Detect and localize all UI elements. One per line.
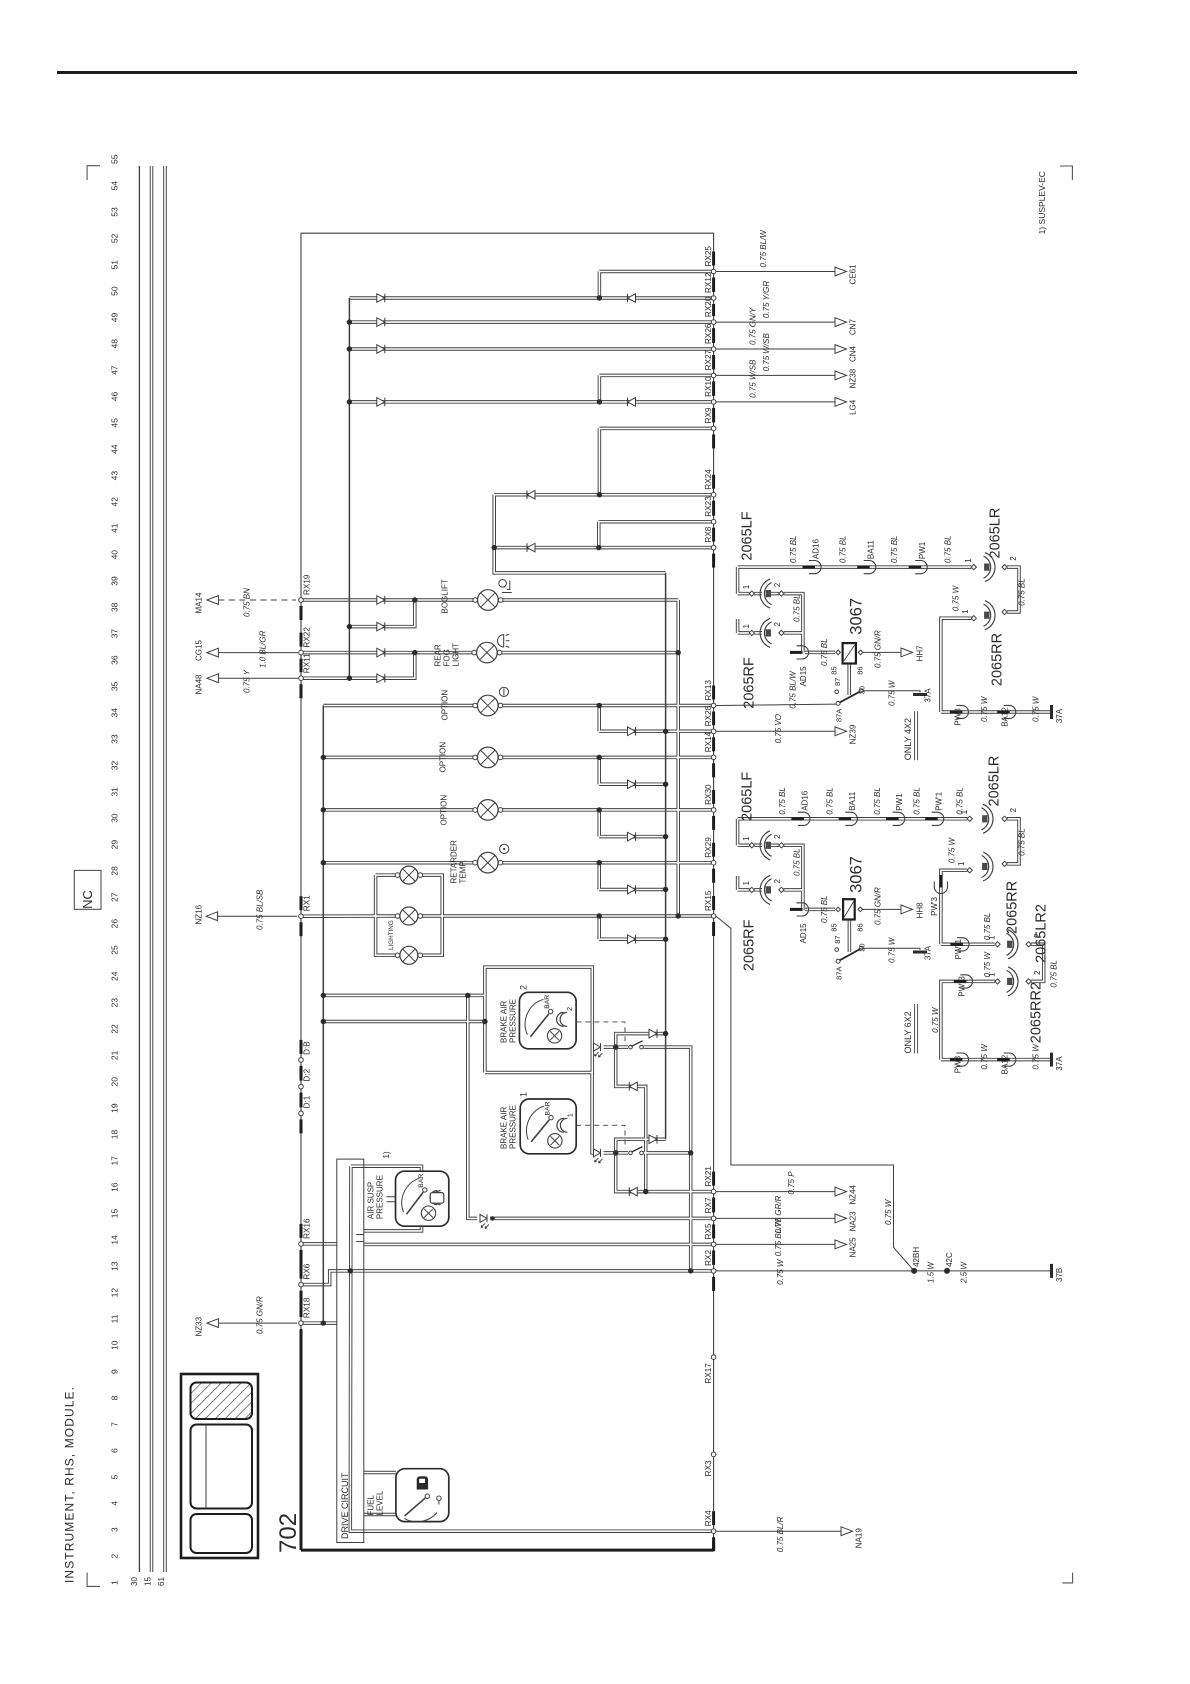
ground 37B [1050, 1264, 1053, 1278]
junction [597, 755, 602, 760]
svg-text:1: 1 [742, 584, 751, 589]
junction [347, 624, 352, 629]
svg-text:FUEL: FUEL [367, 1495, 376, 1516]
svg-text:85: 85 [830, 666, 839, 674]
diode feed row 1 [628, 727, 636, 736]
svg-text:AIR SUSP: AIR SUSP [367, 1182, 376, 1219]
svg-text:10: 10 [110, 1340, 120, 1350]
svg-text:0.75 BL: 0.75 BL [820, 638, 829, 666]
gauge AIR SUSP PRESSURE [396, 1171, 449, 1226]
svg-text:CN4: CN4 [849, 345, 858, 362]
module 702 boundary box [301, 233, 714, 1550]
wire to PW''1 row [941, 943, 995, 945]
svg-text:RX26: RX26 [704, 323, 713, 344]
svg-text:0.75 BL/R: 0.75 BL/R [776, 1516, 785, 1552]
svg-text:RX25: RX25 [704, 246, 713, 267]
relay pin 86 6x2 [858, 907, 863, 912]
wire NA48 [218, 677, 298, 679]
svg-text:LEVEL: LEVEL [376, 1490, 385, 1515]
diode RX10 right [628, 398, 636, 407]
svg-text:6: 6 [110, 1448, 120, 1453]
air gauge bottom wire [364, 1226, 422, 1231]
node RX14 [711, 755, 716, 760]
svg-text:2: 2 [773, 582, 782, 587]
svg-text:NZ39: NZ39 [849, 724, 858, 744]
splice AD16 [809, 561, 821, 574]
svg-text:0.75 GN/R: 0.75 GN/R [874, 630, 883, 668]
junction [663, 937, 668, 942]
wire RR2 pin1 down [941, 870, 968, 944]
bus line 30 [138, 166, 140, 1572]
sensor 2065RF 6x2 [760, 875, 770, 904]
wire blade to V691 gauge1 [644, 1152, 691, 1154]
svg-text:RX1: RX1 [303, 895, 312, 911]
node RX10 [711, 400, 716, 405]
wire to CN7 [716, 321, 835, 323]
node RX9 [711, 426, 716, 431]
diode feed row 3 [628, 832, 636, 841]
node D:1 [299, 1111, 304, 1116]
wire 2065LF2 pin2 chain [771, 845, 803, 910]
svg-text:0.75 BL/W: 0.75 BL/W [759, 229, 768, 268]
svg-text:87: 87 [833, 935, 842, 943]
diode row 5 wire [599, 938, 665, 940]
svg-text:2: 2 [773, 622, 782, 627]
svg-text:RX11: RX11 [303, 653, 312, 673]
svg-text:PW3: PW3 [953, 1055, 962, 1073]
wire RX15 external run to 42BH [716, 916, 914, 1271]
wire AD15 to relay 85 6x2 [805, 908, 835, 910]
off-page HH7 [901, 648, 913, 657]
svg-text:34: 34 [110, 708, 120, 718]
svg-text:TEMP.: TEMP. [459, 860, 468, 883]
wire to CE61 [716, 271, 835, 273]
lamp OPTION3 [473, 808, 478, 813]
svg-text:0.75 BL: 0.75 BL [944, 536, 953, 564]
junction [347, 676, 352, 681]
svg-text:42: 42 [110, 497, 120, 507]
svg-text:28: 28 [110, 866, 120, 876]
node RX17 [711, 1355, 716, 1360]
node RX27 [711, 373, 716, 378]
diode RX19 [377, 596, 385, 605]
svg-text:0.75 BL/W: 0.75 BL/W [789, 670, 798, 709]
wire RR pin1 to PW3 row [941, 618, 972, 712]
svg-text:0.75 BL: 0.75 BL [793, 848, 802, 876]
svg-text:0.75 BL: 0.75 BL [873, 787, 882, 815]
junction [663, 834, 668, 839]
junction [597, 913, 602, 918]
svg-text:87A: 87A [835, 967, 844, 980]
svg-text:2: 2 [1033, 970, 1042, 975]
relay 3067 coil box 6x2 [843, 899, 855, 919]
relay 3067 coil box [843, 643, 856, 663]
off-page NZ33 [207, 1319, 219, 1328]
diode row 2 wire [599, 783, 665, 785]
node RX22 [299, 650, 304, 655]
svg-text:BA12: BA12 [1001, 1054, 1010, 1074]
ground 37A 6x2 [1050, 1053, 1053, 1067]
top bus 6X2 [738, 818, 968, 820]
bus V323 [322, 706, 324, 1324]
wire RX6 jog to RX2 row [301, 1271, 350, 1285]
splice AD16 6x2 [798, 812, 810, 825]
sensor 2065RR [985, 601, 995, 630]
svg-text:31: 31 [110, 787, 120, 797]
svg-text:4: 4 [110, 1501, 120, 1506]
svg-text:RX19: RX19 [303, 574, 312, 595]
svg-text:NA23: NA23 [849, 1211, 858, 1232]
wire 30 to ground [863, 691, 920, 693]
svg-text:BRAKE AIR: BRAKE AIR [500, 1001, 509, 1043]
feed row to RX7 LED [323, 994, 485, 996]
node RX7 [711, 1216, 716, 1221]
svg-text:2: 2 [773, 879, 782, 884]
dashed link gauge2 [576, 1022, 625, 1043]
svg-text:AD15: AD15 [799, 923, 808, 944]
svg-text:RX8: RX8 [704, 526, 713, 542]
svg-text:49: 49 [110, 313, 120, 323]
wire LED to RX7 [490, 1217, 714, 1219]
relay pin 30 6x2 [859, 946, 863, 950]
svg-text:1: 1 [742, 624, 751, 629]
svg-text:40: 40 [110, 550, 120, 560]
svg-text:30: 30 [130, 1577, 139, 1586]
svg-text:1) SUSPLEV-EC: 1) SUSPLEV-EC [1037, 171, 1047, 234]
svg-text:0.75 W: 0.75 W [1032, 695, 1041, 722]
relay blade [840, 692, 861, 703]
svg-text:0.75 GN/Y: 0.75 GN/Y [749, 307, 758, 345]
svg-text:BAR: BAR [418, 1174, 425, 1188]
svg-text:2065RR2: 2065RR2 [1029, 982, 1045, 1043]
svg-text:0.75 W: 0.75 W [931, 1006, 940, 1033]
wire to LG4 [716, 401, 835, 403]
svg-text:21: 21 [110, 1050, 120, 1060]
gauge2 comparator wire [592, 1046, 594, 1048]
diode row 4 wire [599, 889, 665, 891]
fuel terminal circle [437, 1496, 441, 1500]
svg-text:PW3: PW3 [953, 708, 962, 726]
svg-text:1: 1 [964, 558, 973, 563]
node RX6 [299, 1282, 304, 1287]
svg-text:PW''1: PW''1 [954, 939, 963, 960]
svg-text:0.75 W: 0.75 W [884, 1198, 893, 1225]
svg-text:1: 1 [957, 861, 966, 866]
svg-text:36: 36 [110, 655, 120, 665]
svg-text:0.75 BL: 0.75 BL [839, 536, 848, 564]
icon boglift [499, 580, 507, 588]
svg-text:1: 1 [110, 1580, 120, 1585]
svg-text:2065RR: 2065RR [990, 633, 1006, 686]
node RX4 [711, 1529, 716, 1534]
svg-text:HH8: HH8 [916, 902, 925, 919]
svg-text:1: 1 [519, 1092, 529, 1097]
diode boglift feed [377, 622, 385, 631]
diode row 3 drop wire [598, 810, 600, 837]
svg-text:BAR: BAR [544, 1101, 551, 1115]
svg-text:47: 47 [110, 365, 120, 375]
icon option1 [499, 687, 508, 696]
svg-text:1: 1 [988, 935, 997, 940]
svg-text:2: 2 [1009, 807, 1018, 812]
diode feed row from V349 to BOGLIFT [349, 600, 414, 627]
svg-text:13: 13 [110, 1261, 120, 1271]
svg-text:3067: 3067 [848, 598, 866, 635]
sensor 2065LR [985, 553, 995, 582]
icon air susp square [430, 1193, 444, 1204]
svg-text:0.75 BL: 0.75 BL [1018, 578, 1027, 606]
splice PW'3 [934, 882, 947, 894]
svg-text:ONLY 6X2: ONLY 6X2 [903, 1011, 913, 1053]
svg-text:39: 39 [110, 576, 120, 586]
svg-text:29: 29 [110, 840, 120, 850]
LED RX7 [480, 1214, 487, 1222]
cluster window bottom [191, 1514, 253, 1553]
left border bold lower run [301, 1343, 714, 1550]
LED gauge1 [594, 1149, 601, 1157]
wire RX13 to 87A [716, 704, 836, 705]
svg-text:AD15: AD15 [799, 666, 808, 687]
svg-text:LIGHT: LIGHT [452, 643, 461, 667]
svg-text:2065LR: 2065LR [988, 508, 1004, 559]
svg-text:DRIVE CIRCUIT: DRIVE CIRCUIT [340, 1472, 350, 1539]
off-page CE61 [835, 267, 847, 276]
wire 2065RF2 pin1 stub [738, 889, 762, 891]
svg-text:0.75 W: 0.75 W [980, 695, 989, 722]
node RX3 [711, 1452, 716, 1457]
svg-text:14: 14 [110, 1235, 120, 1245]
svg-text:PRESSURE: PRESSURE [509, 1105, 518, 1149]
wire blade to V691 [644, 1047, 691, 1271]
node RX8 [711, 545, 716, 550]
relay pin 87A 6x2 [836, 959, 840, 963]
wire RX26 row [349, 348, 713, 350]
junction [597, 703, 602, 708]
diode RX26 [377, 345, 385, 354]
node RX15 [711, 914, 716, 919]
svg-text:0.75 W: 0.75 W [1032, 1043, 1041, 1070]
relay pin 85 6x2 [836, 907, 841, 912]
svg-text:0.75 BL: 0.75 BL [913, 787, 922, 815]
wire RX24 row [494, 494, 713, 496]
wire 86 to HH8 [862, 908, 901, 910]
svg-text:27: 27 [110, 892, 120, 902]
svg-text:12: 12 [110, 1288, 120, 1298]
icon fuel pump [417, 1476, 428, 1489]
svg-text:11: 11 [110, 1314, 120, 1323]
wire RX20 row [349, 321, 713, 323]
node RX21 [711, 1189, 716, 1194]
svg-text:2: 2 [519, 985, 529, 990]
dashed link gauge1 [576, 1125, 625, 1149]
module bottom bold edge [301, 1549, 714, 1552]
svg-text:RX17: RX17 [704, 1363, 713, 1384]
svg-text:REAR: REAR [434, 644, 443, 666]
off-page NZ39 [835, 727, 847, 736]
wire RX7 to NA23 [716, 1217, 835, 1219]
svg-text:RX24: RX24 [704, 469, 713, 490]
svg-text:19: 19 [110, 1103, 120, 1113]
cluster window middle [191, 1425, 253, 1509]
wire 2065LF2 pin1 feed [738, 844, 762, 846]
svg-text:OPTION: OPTION [440, 795, 449, 826]
svg-text:48: 48 [110, 339, 120, 349]
svg-text:RX7: RX7 [704, 1197, 713, 1213]
relay linkage [848, 664, 850, 696]
box2 to gauge1 LED drop [592, 1073, 594, 1153]
relay pin 86 [858, 650, 863, 655]
wire LR2 pin2 corner [1007, 819, 1019, 864]
svg-text:18: 18 [110, 1130, 120, 1140]
junction [596, 545, 601, 550]
svg-text:2065LR2: 2065LR2 [1034, 904, 1050, 963]
diode row 1 wire [599, 730, 713, 732]
gauge BRAKE AIR PRESSURE 1 [520, 1099, 576, 1154]
lamp OPTION2 [473, 755, 478, 760]
wire RX9 row [599, 428, 713, 494]
svg-text:2065LF: 2065LF [740, 772, 756, 821]
LIGHTING wire loop [376, 875, 443, 955]
junction [321, 993, 326, 998]
junction [663, 887, 668, 892]
svg-text:NZ16: NZ16 [195, 904, 204, 924]
splice AD15 [797, 646, 809, 659]
bus V349 [348, 298, 350, 678]
wire RX4 to NA19 [716, 1530, 841, 1532]
svg-text:NC: NC [80, 890, 95, 909]
wire RX2 external to 37B [716, 1270, 1050, 1272]
svg-text:HH7: HH7 [916, 645, 925, 662]
node RX5 [711, 1242, 716, 1247]
diode row 3 wire [599, 836, 665, 838]
sensor 2065RR2 [1008, 967, 1018, 996]
svg-text:0.75 BL: 0.75 BL [778, 787, 787, 815]
lamp REAR FOG [472, 650, 477, 655]
wire MA14 dashed [218, 599, 296, 601]
sensor 2065LF 6x2 [760, 831, 770, 860]
diode RX10 [377, 398, 385, 407]
node RX28 [711, 729, 716, 734]
svg-text:0.75 W/SB: 0.75 W/SB [762, 332, 771, 371]
feed row to gauge2 box [323, 1021, 485, 1023]
fuel needle [405, 1498, 426, 1516]
svg-text:54: 54 [110, 181, 120, 191]
svg-text:BRAKE AIR: BRAKE AIR [500, 1107, 509, 1149]
up branch diode to bus [616, 1034, 666, 1048]
svg-text:1: 1 [567, 1113, 574, 1117]
svg-text:1: 1 [961, 609, 970, 614]
svg-text:1: 1 [742, 881, 751, 886]
lamp lighting bottom [395, 953, 400, 958]
svg-text:1.5 W: 1.5 W [927, 1261, 936, 1283]
svg-text:53: 53 [110, 207, 120, 217]
node RX13 [711, 703, 716, 708]
wire RX10 row [349, 401, 713, 403]
wire RX2 row [350, 1270, 713, 1272]
node RX30 [711, 808, 716, 813]
junction [321, 860, 326, 865]
svg-text:0.75 P: 0.75 P [787, 1171, 796, 1195]
svg-text:FOG: FOG [443, 649, 452, 666]
junction [597, 492, 602, 497]
lamp lighting middle [395, 914, 400, 919]
node RX1 [299, 914, 304, 919]
diode RX20 [377, 318, 385, 327]
wire RX22 rear fog row [301, 652, 474, 654]
gauge1 up branch diode to bus end [616, 1139, 666, 1153]
node RX26 [711, 347, 716, 352]
double-line wires inner white [152, 166, 1051, 1572]
instrument cluster icon [181, 1374, 258, 1558]
junction [597, 399, 602, 404]
svg-text:RX29: RX29 [704, 837, 713, 858]
splice BA12 6x2 [1004, 1053, 1016, 1066]
fuel wires to drive box [364, 1472, 396, 1474]
vertical V351 [350, 1166, 713, 1531]
gauge FUEL LEVEL [396, 1469, 449, 1522]
off-page HH8 [901, 905, 913, 914]
svg-text:RX10: RX10 [704, 376, 713, 397]
svg-text:15: 15 [110, 1209, 120, 1219]
off-page NZ38 [835, 371, 847, 380]
double-line wires outer [152, 166, 1051, 1572]
svg-text:35: 35 [110, 681, 120, 691]
svg-text:37A: 37A [924, 688, 933, 703]
wire NZ33 [218, 1322, 297, 1324]
svg-text:26: 26 [110, 919, 120, 929]
svg-text:PRESSURE: PRESSURE [376, 1175, 385, 1219]
wire RX21 to NZ44 [716, 1191, 835, 1193]
svg-text:2: 2 [567, 1007, 574, 1011]
svg-text:LG4: LG4 [849, 399, 858, 415]
svg-text:8: 8 [110, 1395, 120, 1400]
node RX18 [299, 1321, 304, 1326]
diode RX11 [377, 674, 385, 683]
svg-text:46: 46 [110, 392, 120, 402]
splice PW1 [915, 561, 927, 574]
node D:B [299, 1058, 304, 1063]
svg-text:D:2: D:2 [303, 1068, 312, 1081]
diode RX8 [527, 543, 535, 552]
svg-text:RX23: RX23 [704, 496, 713, 517]
svg-text:0.75 BL: 0.75 BL [826, 787, 835, 815]
relay linkage 6x2 [848, 920, 850, 953]
bus line 15 [151, 166, 153, 1572]
wire to NZ38 [716, 374, 835, 376]
svg-text:NA48: NA48 [195, 674, 204, 695]
svg-text:NZ38: NZ38 [849, 368, 858, 388]
wire CG15 [218, 652, 298, 654]
junction [347, 399, 352, 404]
splice PW''1 [957, 938, 969, 951]
wire RR2 pin1 to PW''3 [941, 981, 995, 1059]
svg-text:RX4: RX4 [704, 1510, 713, 1526]
svg-text:RX27: RX27 [704, 349, 713, 370]
svg-text:0.75 BL: 0.75 BL [1018, 828, 1027, 856]
svg-text:43: 43 [110, 471, 120, 481]
svg-text:BA11: BA11 [866, 540, 875, 560]
svg-text:1.0 BL/GR: 1.0 BL/GR [258, 630, 267, 668]
off-page LG4 [835, 398, 847, 407]
svg-text:37A: 37A [924, 945, 933, 960]
node RX19 [299, 598, 304, 603]
svg-text:2065RR: 2065RR [1005, 881, 1021, 934]
junction [321, 807, 326, 812]
svg-text:44: 44 [110, 444, 120, 454]
diode row 2 drop wire [598, 757, 600, 784]
splice BA11 6x2 [845, 812, 857, 825]
svg-text:RETARDER: RETARDER [450, 840, 459, 884]
